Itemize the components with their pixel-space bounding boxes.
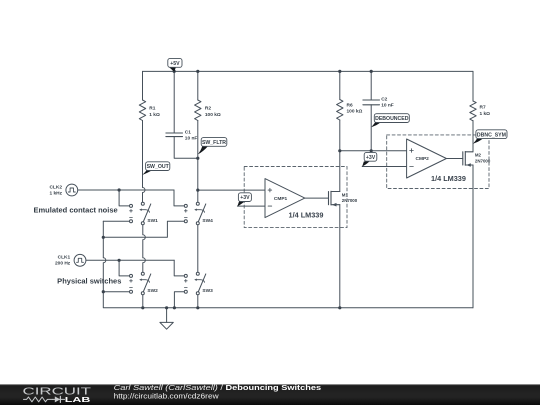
resistor R1: [139, 100, 145, 121]
label SW4: [202, 218, 213, 224]
label R1 value: [149, 106, 160, 118]
wire M2 source down to rail: [472, 165, 474, 308]
capacitor C1: [166, 133, 183, 137]
wire R7 bottom to M2 drain: [472, 121, 474, 152]
svg-text:2N7000: 2N7000: [342, 198, 358, 203]
svg-text:100 kΩ: 100 kΩ: [347, 109, 363, 115]
svg-text:Emulated contact noise: Emulated contact noise: [34, 206, 118, 215]
resistor R2: [195, 100, 201, 121]
wire R6 top lead: [339, 71, 341, 99]
svg-text:LAB: LAB: [65, 395, 91, 404]
net flag DEBOUNCED: [371, 114, 409, 128]
svg-text:2N7000: 2N7000: [475, 158, 491, 163]
transistor M2 (NMOS 2N7000): [463, 152, 473, 167]
label CLK1 value: [55, 255, 71, 267]
net flag +3V (CMP2 - input): [362, 152, 377, 166]
svg-text:CLK2: CLK2: [49, 184, 62, 190]
svg-text:SW2: SW2: [147, 288, 158, 294]
svg-text:+5V: +5V: [170, 61, 180, 67]
wire +3V flag to CMP1 - input: [237, 205, 265, 207]
net flag +5V: [168, 58, 182, 71]
wire left ground bus vertical (hop over CLK1 wire): [103, 221, 143, 308]
net flag SW_FLTR: [198, 138, 227, 155]
svg-text:1 kΩ: 1 kΩ: [149, 112, 160, 118]
dashed outline around CMP2/M2 (1/4 LM339): [387, 135, 489, 189]
svg-text:SW1: SW1: [147, 218, 158, 224]
wire R2 top lead: [197, 71, 199, 100]
transistor M1 (NMOS 2N7000): [329, 191, 340, 206]
switch SW1: [130, 202, 151, 225]
svg-text:R2: R2: [205, 106, 211, 112]
svg-text:10 nF: 10 nF: [381, 103, 394, 109]
wire CLK2 branch to SW1 + control: [119, 190, 131, 206]
dashed outline around CMP1/M1 (1/4 LM339): [244, 167, 347, 228]
annotation Emulated contact noise: [34, 206, 118, 215]
wire DEBOUNCED node to CMP2 + input: [340, 150, 407, 152]
svg-text:+3V: +3V: [240, 195, 250, 201]
wire C2 bottom to DEBOUNCED node: [370, 105, 372, 151]
wire SW_FLTR to CMP1 + input: [198, 189, 265, 191]
wire CLK2 output: [78, 189, 174, 191]
svg-text:1/4 LM339: 1/4 LM339: [289, 210, 324, 219]
wire CLK2 to SW4 + control: [174, 190, 186, 206]
banner background bar: [0, 384, 540, 405]
label 1/4 LM339 (CMP2): [431, 174, 466, 183]
wire M1 drain up to DEBOUNCED node: [339, 151, 341, 192]
wire CLK1 output: [86, 259, 174, 261]
label SW2: [147, 288, 158, 294]
wire SW1 bottom to SW2 top (hops over link and CLK1 wires): [143, 223, 146, 273]
label M1 value: [342, 192, 358, 203]
junction node dots: [102, 70, 373, 310]
wire SW3 - control to ground rail: [174, 292, 185, 308]
wire CMP1 output to M1 gate: [305, 197, 329, 199]
svg-text:CMP2: CMP2: [416, 156, 430, 162]
wire SW3 bottom to rail: [197, 293, 199, 308]
label CMP2: [416, 156, 430, 162]
svg-text:+3V: +3V: [366, 155, 376, 161]
net flag +3V (CMP1 - input): [237, 193, 251, 207]
label M2 value: [475, 153, 491, 164]
label 1/4 LM339 (CMP1): [289, 210, 324, 219]
svg-text:M1: M1: [342, 192, 349, 197]
resistor R7: [470, 101, 476, 121]
CircuitLab logo diode: [52, 396, 64, 402]
wire SW2 - control to ground bus: [103, 291, 131, 293]
wire CLK1 to SW3 + control: [174, 260, 186, 276]
wire top +5V rail: [143, 70, 474, 72]
capacitor C2: [363, 100, 380, 105]
op-amp comparator CMP1: [265, 179, 305, 218]
svg-text:200 Hz: 200 Hz: [55, 261, 71, 267]
wire R7 top lead: [472, 71, 474, 101]
svg-text:DBNC_SYM: DBNC_SYM: [477, 132, 506, 138]
wire R1 top lead: [142, 71, 144, 100]
label R2 value: [205, 106, 221, 118]
label CLK2 value: [49, 184, 62, 196]
wire CLK1 branch to SW2 + control: [119, 260, 131, 276]
wire SW2 bottom to rail: [142, 293, 144, 308]
switch SW3: [184, 272, 206, 295]
wire R6 bottom to DEBOUNCED node: [339, 120, 341, 151]
svg-text:1/4 LM339: 1/4 LM339: [431, 174, 466, 183]
net flag DBNC_SYM: [473, 130, 507, 144]
svg-text:R6: R6: [347, 103, 353, 109]
svg-text:Carl Sawtell (CarlSawtell) / D: Carl Sawtell (CarlSawtell) / Debouncing …: [114, 383, 322, 392]
svg-text:1 kHz: 1 kHz: [49, 190, 62, 196]
wire C1 bottom to SW_FLTR node: [174, 137, 198, 159]
svg-text:SW4: SW4: [202, 218, 213, 224]
switch SW2: [130, 272, 151, 295]
CircuitLab logo resistor squiggle: [24, 397, 53, 402]
wire C2 top lead: [370, 71, 372, 100]
svg-text:10 nF: 10 nF: [185, 136, 198, 142]
resistor R6: [337, 100, 343, 121]
label SW1: [147, 218, 158, 224]
svg-text:R7: R7: [480, 105, 486, 111]
wire +5V stub to C1 top: [173, 71, 175, 133]
net flag SW_OUT: [142, 162, 169, 175]
label R7 value: [480, 105, 491, 117]
label C1 value: [185, 129, 198, 141]
wire M1 source down to rail: [339, 205, 341, 308]
svg-text:CMP1: CMP1: [274, 196, 288, 202]
label R6 value: [347, 103, 363, 115]
wire net SW_FLTR (R2 bottom to SW4 top): [197, 121, 199, 204]
svg-text:1 kΩ: 1 kΩ: [480, 111, 491, 117]
wire SW4 bottom to SW3 top: [197, 223, 199, 273]
svg-text:DEBOUNCED: DEBOUNCED: [375, 116, 409, 122]
svg-text:M2: M2: [475, 153, 482, 158]
ground: [160, 322, 173, 329]
svg-text:SW_OUT: SW_OUT: [147, 164, 170, 170]
wire ground stub: [166, 308, 168, 323]
svg-text:Physical switches: Physical switches: [57, 277, 121, 286]
svg-text:R1: R1: [149, 106, 155, 112]
op-amp comparator CMP2: [407, 139, 447, 178]
switch SW4: [184, 202, 206, 225]
svg-text:CLK1: CLK1: [58, 255, 71, 261]
label CMP1: [274, 196, 288, 202]
label SW3: [202, 288, 213, 294]
svg-text:C2: C2: [381, 96, 387, 102]
wire +3V flag to CMP2 - input: [362, 166, 406, 168]
annotation Physical switches: [57, 277, 121, 286]
wire SW1 - control to ground bus: [103, 220, 131, 222]
svg-text:http://circuitlab.com/cdz6rew: http://circuitlab.com/cdz6rew: [114, 392, 220, 401]
wire net SW_OUT (R1 bottom to SW1, hop over CLK2 wire): [143, 121, 146, 204]
voltage source CLK1: [74, 254, 86, 266]
label C2 value: [381, 96, 394, 108]
wire bottom ground rail: [143, 307, 473, 309]
svg-text:100 kΩ: 100 kΩ: [205, 112, 221, 118]
svg-text:C1: C1: [185, 129, 191, 135]
wire CMP2 output to M2 gate: [446, 158, 462, 160]
voltage source CLK2: [66, 184, 78, 196]
svg-text:SW_FLTR: SW_FLTR: [202, 140, 226, 146]
wire SW4 - control to ground bus: [103, 221, 186, 237]
svg-text:SW3: SW3: [202, 288, 213, 294]
